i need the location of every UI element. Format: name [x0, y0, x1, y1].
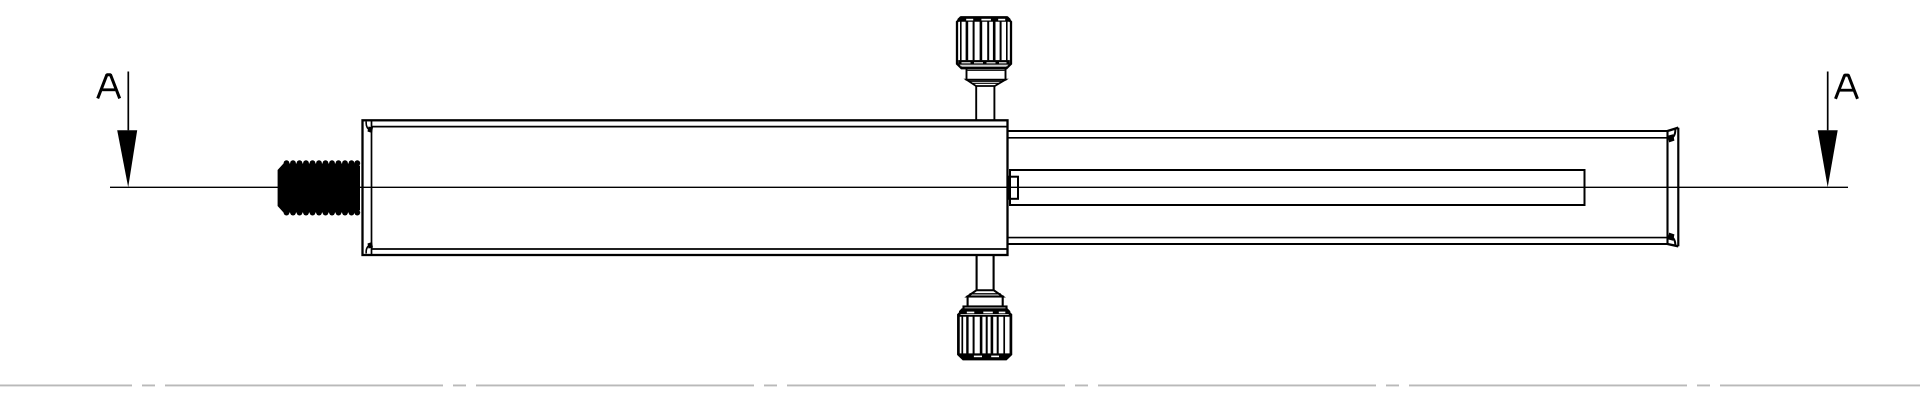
- bottom knob collar: [968, 297, 1003, 307]
- centerline: [110, 186, 1848, 188]
- section arrow A left: leader line: [127, 72, 129, 131]
- bottom knob knurled head: [958, 308, 1011, 359]
- section arrow A left: arrowhead: [117, 130, 137, 187]
- piston rod: [1010, 170, 1585, 205]
- outer body tube: [363, 120, 1008, 255]
- phantom line (bottom gray): [0, 384, 1920, 386]
- retaining ring tube top-right: [1668, 129, 1675, 143]
- retaining ring body bottom-left: [366, 242, 373, 254]
- inner tube end cap: [1668, 128, 1679, 247]
- bottom knob neck taper: [968, 290, 1003, 296]
- top knob collar: [967, 67, 1006, 79]
- section arrow A right: arrowhead: [1818, 130, 1838, 187]
- top knob knurled head: [957, 16, 1011, 68]
- top knob neck taper: [967, 80, 1006, 86]
- threaded stud: [278, 160, 361, 215]
- inner sliding tube: [1009, 130, 1668, 245]
- bottom knob stem: [977, 255, 994, 291]
- rod end nub: [1008, 177, 1018, 199]
- section arrow A right: leader line: [1827, 72, 1829, 131]
- retaining ring tube bottom-right: [1668, 233, 1675, 247]
- bottom knob base step: [964, 307, 1007, 312]
- label A left: [98, 75, 120, 99]
- label A right: [1836, 75, 1858, 99]
- retaining ring body top-left: [366, 122, 373, 134]
- top knob stem: [976, 86, 994, 120]
